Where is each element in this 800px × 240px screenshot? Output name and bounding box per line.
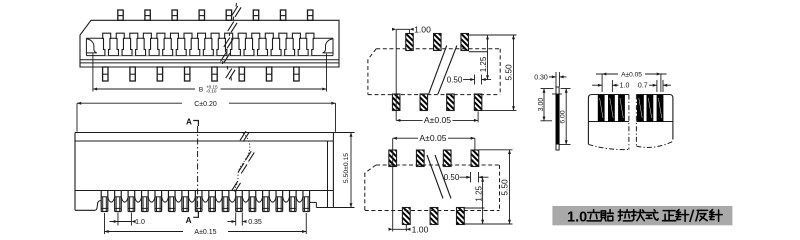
dimension A±0.05 (upper footprint) xyxy=(477,112,479,123)
contact K2 xyxy=(116,33,124,55)
top pin T7 xyxy=(280,10,285,20)
conductor CR1 xyxy=(637,95,644,122)
title glyph 拔 xyxy=(632,210,634,221)
bottom pin Bt8 xyxy=(294,67,299,81)
dimension A±0.05 (lower footprint) xyxy=(392,138,394,231)
break tick pair xyxy=(226,69,232,79)
front break tick pair xyxy=(232,182,238,191)
break line (front view) xyxy=(234,133,250,191)
svg-text:B: B xyxy=(199,86,203,93)
bottom pad LB1 xyxy=(402,208,410,225)
conductor CL3 xyxy=(618,95,625,122)
lower footprint dashed body outline xyxy=(376,164,500,166)
front pin F16 xyxy=(302,191,304,212)
svg-text:5.50: 5.50 xyxy=(503,64,513,81)
lower footprint anchor pad ledge lines xyxy=(464,207,484,209)
svg-text:1.0: 1.0 xyxy=(620,83,630,90)
svg-text:A±0.15: A±0.15 xyxy=(194,229,216,236)
top pad UP3 xyxy=(461,34,469,51)
front view body outline xyxy=(75,132,333,134)
top pin T3 xyxy=(172,10,177,20)
bottom pad LB3 xyxy=(457,208,465,225)
dimension 0.50 (upper footprint) xyxy=(474,75,476,85)
contact K1 xyxy=(103,33,111,55)
front view end cap wall xyxy=(327,141,329,208)
top pad UP1 xyxy=(406,34,414,51)
bottom pad LP4 xyxy=(474,94,482,111)
title glyph 正 xyxy=(663,210,675,212)
top pad LT3 xyxy=(443,150,451,167)
contact K6 xyxy=(170,33,178,55)
cavity right horn xyxy=(323,39,333,53)
svg-text:5.50: 5.50 xyxy=(499,179,509,196)
dimension 5.50±0.15 xyxy=(333,132,354,134)
comb scallop xyxy=(162,197,169,202)
comb scallop xyxy=(148,197,155,202)
dimension 0.50 (lower footprint) xyxy=(470,172,472,183)
cavity left horn xyxy=(86,39,96,53)
dimension 1.00 (upper footprint) xyxy=(395,29,397,120)
top pin T2 xyxy=(145,10,150,20)
break tick pair xyxy=(228,22,234,32)
title glyph 反 xyxy=(697,209,707,211)
bottom pad LP1 xyxy=(392,94,400,111)
break tick pair xyxy=(232,6,238,16)
svg-text:A±0.05: A±0.05 xyxy=(419,133,446,143)
top pad LT1 xyxy=(389,150,397,167)
svg-text:0.7: 0.7 xyxy=(638,83,648,90)
svg-text:A: A xyxy=(186,216,192,225)
top pad LT2 xyxy=(416,150,424,167)
conductor CL1 xyxy=(598,95,605,122)
connector top view body outline xyxy=(80,20,339,67)
contact K7 xyxy=(184,33,192,55)
contact K12 xyxy=(252,33,260,55)
contact K3 xyxy=(130,33,138,55)
comb scallop xyxy=(269,197,276,202)
break tick pair xyxy=(221,52,227,62)
svg-text:3.00: 3.00 xyxy=(538,98,545,112)
conductor CL2 xyxy=(608,95,615,122)
svg-text:C±0.20: C±0.20 xyxy=(194,101,217,108)
front pin F1 xyxy=(100,191,102,212)
dimension 1.0 (pin pitch) xyxy=(117,213,119,226)
front pin F2 xyxy=(114,191,116,212)
contact K10 xyxy=(225,33,233,55)
title glyph 立 xyxy=(593,210,595,212)
front pin F11 xyxy=(235,191,237,212)
top pad UP2 xyxy=(434,34,442,51)
dimension B +0.15/-0.10 xyxy=(92,54,94,92)
dimension A±0.05 (FFC) xyxy=(601,74,603,92)
front pin F8 xyxy=(194,191,196,212)
top pin T6 xyxy=(253,10,258,20)
bottom pad LP2 xyxy=(420,94,428,111)
svg-text:1.25: 1.25 xyxy=(474,185,483,201)
comb scallop xyxy=(135,197,142,202)
svg-text:A±0.05: A±0.05 xyxy=(424,115,451,125)
contact K13 xyxy=(265,33,273,55)
dimension 0.30 xyxy=(555,72,557,87)
front pin F12 xyxy=(248,191,250,212)
front pin F5 xyxy=(154,191,156,212)
svg-text:0.50: 0.50 xyxy=(444,173,460,182)
dimension 1.00 (lower footprint) xyxy=(405,225,407,231)
FFC side view film xyxy=(556,87,559,150)
bottom pad LB2 xyxy=(430,208,438,225)
upper footprint anchor pad ledge lines xyxy=(469,34,488,36)
bottom pin Bt1 xyxy=(103,67,108,81)
svg-text:0.30: 0.30 xyxy=(534,74,548,81)
title slash xyxy=(690,210,694,222)
svg-text:1.0: 1.0 xyxy=(567,210,587,226)
title glyph 拉 xyxy=(619,210,621,221)
front pin F9 xyxy=(208,191,210,212)
front pin F3 xyxy=(127,191,129,212)
FFC end view right piece outline xyxy=(636,95,673,140)
bottom pin Bt2 xyxy=(130,67,135,81)
contact K8 xyxy=(198,33,206,55)
svg-text:A: A xyxy=(186,117,192,126)
contact K15 xyxy=(292,33,300,55)
front pin F13 xyxy=(262,191,264,212)
comb scallop xyxy=(175,197,182,202)
svg-text:6.00: 6.00 xyxy=(560,110,567,123)
dimension 6.00 xyxy=(561,88,571,90)
upper footprint dashed body outline xyxy=(376,48,500,50)
contact K5 xyxy=(157,33,165,55)
top pin T8 xyxy=(308,10,313,20)
svg-text:1.0: 1.0 xyxy=(135,219,145,226)
bottom pad LP3 xyxy=(447,94,455,111)
cavity top line xyxy=(86,37,333,39)
front break tick pair xyxy=(245,151,251,160)
title glyph 式 xyxy=(654,210,655,211)
front break tick pair xyxy=(240,131,246,140)
right piece conductor band line xyxy=(636,121,673,123)
comb scallop xyxy=(256,197,263,202)
comb scallop xyxy=(108,197,115,202)
upper footprint break lines xyxy=(438,46,457,95)
svg-text:-0.10: -0.10 xyxy=(206,89,217,94)
conductor CR3 xyxy=(657,95,664,122)
dimension 5.50 (lower footprint) xyxy=(479,149,513,151)
comb scallop xyxy=(283,197,290,202)
cavity right wall xyxy=(332,38,334,55)
title block bar xyxy=(552,206,732,225)
break tick pair xyxy=(224,38,230,48)
bottom pin Bt7 xyxy=(266,67,271,81)
top pad LT4 xyxy=(471,150,479,167)
front pin F6 xyxy=(167,191,169,212)
title glyph 贴 xyxy=(601,211,605,218)
front pin F14 xyxy=(275,191,277,212)
bottom pin Bt3 xyxy=(157,67,162,81)
top pin T5 xyxy=(226,10,231,20)
contact K14 xyxy=(279,33,287,55)
section line A-A xyxy=(197,126,199,212)
contact K9 xyxy=(211,33,219,55)
front pin F15 xyxy=(289,191,291,212)
cavity baseline xyxy=(86,55,333,57)
comb scallop xyxy=(229,197,236,202)
comb scallop xyxy=(296,197,303,202)
svg-text:0.50: 0.50 xyxy=(447,76,463,85)
front pin F10 xyxy=(221,191,223,212)
top pin T4 xyxy=(199,10,204,20)
dimension C±0.20 xyxy=(76,103,78,132)
comb scallop xyxy=(189,197,196,202)
FFC end view left piece outline xyxy=(588,95,629,145)
comb scallop xyxy=(121,197,128,202)
front pin F7 xyxy=(181,191,183,212)
cavity left wall xyxy=(85,38,87,55)
comb scallop xyxy=(202,197,209,202)
dimension 1.25 (lower footprint) xyxy=(482,177,484,224)
contact K11 xyxy=(238,33,246,55)
front break tick pair xyxy=(238,163,244,172)
svg-text:1.00: 1.00 xyxy=(414,24,431,34)
contact K16 xyxy=(306,33,314,55)
front pin F4 xyxy=(141,191,143,212)
comb scallop xyxy=(242,197,249,202)
contact K4 xyxy=(143,33,151,55)
housing lower lines xyxy=(80,59,339,61)
top pin T1 xyxy=(118,10,123,20)
dimension 0.35 (pin width) xyxy=(235,213,237,226)
svg-text:0.35: 0.35 xyxy=(248,219,262,226)
conductor CR2 xyxy=(647,95,654,122)
svg-text:5.50±0.15: 5.50±0.15 xyxy=(343,153,350,183)
break line (top view) xyxy=(235,3,238,7)
lower footprint break lines xyxy=(427,155,443,199)
dimension 0.7 (FFC conductor width) xyxy=(656,80,658,92)
svg-text:A±0.05: A±0.05 xyxy=(621,72,642,79)
dimension 3.00 xyxy=(541,88,554,90)
dimension A±0.15 xyxy=(104,213,106,234)
title glyph 针 xyxy=(710,210,713,212)
svg-text:1.25: 1.25 xyxy=(479,56,488,72)
svg-text:1.00: 1.00 xyxy=(412,225,429,235)
dimension 1.25 (upper footprint) xyxy=(487,35,489,80)
comb scallop xyxy=(215,197,222,202)
title glyph 针 xyxy=(677,210,680,212)
bottom pin Bt4 xyxy=(185,67,190,81)
dimension 1.0 (FFC pitch) xyxy=(611,80,613,92)
left piece conductor band line xyxy=(588,121,629,123)
bottom pin Bt6 xyxy=(239,67,244,81)
dimension 5.50 (upper footprint) xyxy=(488,34,517,36)
bottom pin Bt5 xyxy=(212,67,217,81)
